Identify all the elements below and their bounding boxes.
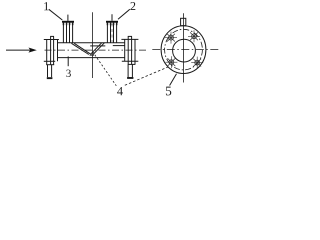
pressure tap 1 stud [67,15,69,21]
right flange bolt lines [121,38,138,40]
right flange bottom drain tube [128,64,132,77]
flow arrow [6,48,36,52]
pressure tap 1 cap flange [62,21,74,23]
leader to label 1 [49,9,63,20]
dashed leader label 4 to end view [125,67,168,85]
nozzle V left wall [71,43,91,54]
pressure tap 2 bore centerline [111,24,113,43]
left flange bolt lines [44,39,59,41]
bolt lower-left [165,56,177,68]
end view bore circle [173,39,196,62]
pressure tap 2 neck blocks [107,23,118,26]
label 4 [117,87,123,95]
end view outer flange circle [161,26,206,74]
right flange drain cap [127,77,133,79]
pressure tap 2 tube [107,23,116,43]
pressure tap 1 neck blocks [63,23,74,26]
left flange bottom drain tube [48,65,52,78]
nozzle throat upper wall segment [90,45,105,47]
label 2 [130,2,135,10]
end view horizontal centerline [152,49,220,51]
pipe centerline [45,49,147,51]
left flange plates [46,36,57,64]
end view bolt circle [165,29,203,70]
label 3 [66,70,71,77]
left flange drain cap [47,77,53,79]
bolt upper-right [188,30,200,42]
pressure tap 1 tube [63,23,72,43]
end view top tap fitting [181,18,186,25]
bolt upper-left [165,32,177,44]
nozzle vertical centerline [92,12,94,78]
nozzle V right wall [91,43,105,55]
label 1 [44,2,48,10]
pipe wall top [58,42,125,44]
end view vertical centerline [183,13,185,82]
leader to label 2 [118,9,130,19]
pressure tap 2 cap flange [106,21,118,23]
nozzle throat bottom [90,54,94,56]
dashed leader nozzle to label 4 [93,52,117,86]
bolt lower-right [191,57,203,69]
right flange plates [125,36,136,64]
label 5 [166,87,171,96]
leader to label 5 [170,74,177,86]
downstream chamber wall segment [113,45,125,47]
pipe wall bottom [58,57,125,59]
leader to label 3 [67,56,69,66]
pressure tap 2 stud [111,14,113,21]
